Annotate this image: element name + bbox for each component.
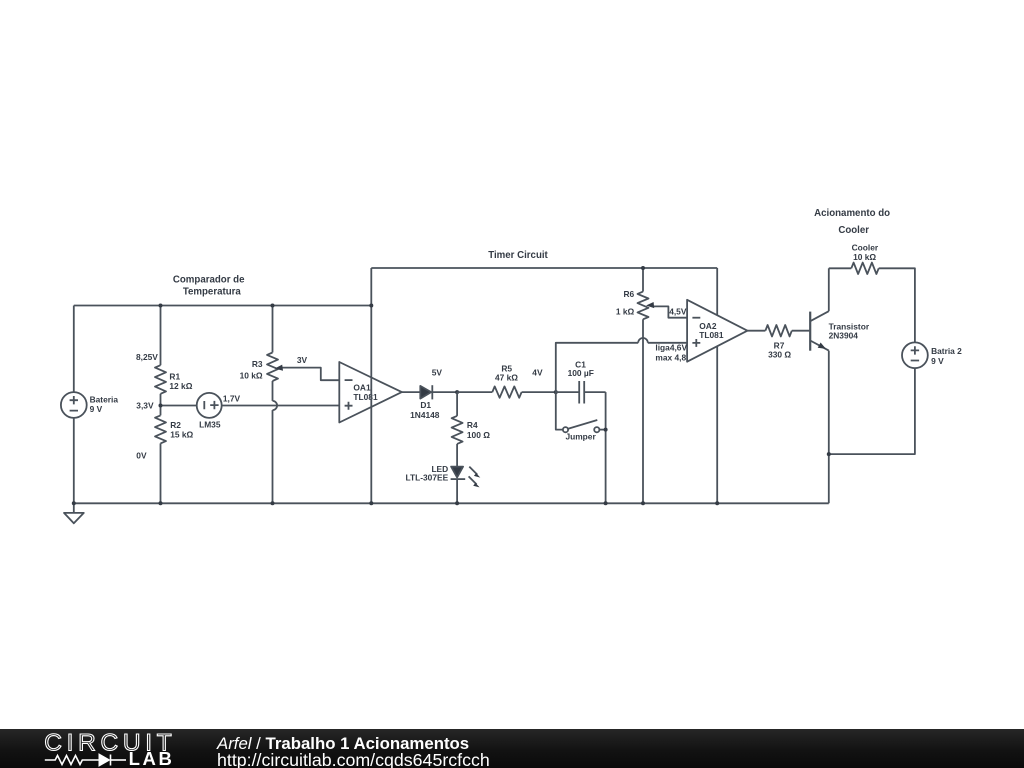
wire emitter down to bottom rail bbox=[828, 351, 830, 504]
wire collector up to cooler rail bbox=[828, 268, 830, 311]
svg-text:1,7V: 1,7V bbox=[223, 394, 241, 404]
node junction D1-R4-R5 bbox=[455, 390, 459, 394]
wire OA1 output to D1 bbox=[402, 391, 421, 393]
label Cooler 10 kΩ bbox=[852, 242, 879, 262]
svg-text:10 kΩ: 10 kΩ bbox=[240, 370, 263, 380]
wire timer box left edge bbox=[370, 268, 372, 503]
resistor R7 bbox=[765, 325, 809, 336]
label OA2 TL081 bbox=[699, 321, 724, 340]
svg-text:10 kΩ: 10 kΩ bbox=[853, 252, 876, 262]
label D1 1N4148 bbox=[410, 400, 440, 420]
svg-text:Comparador de: Comparador de bbox=[173, 275, 245, 286]
battery V2 Batria 2 bbox=[902, 342, 928, 368]
svg-text:D1: D1 bbox=[420, 400, 431, 410]
svg-text:liga4,6V: liga4,6V bbox=[655, 343, 687, 353]
svg-text:LM35: LM35 bbox=[199, 420, 221, 430]
svg-text:Bateria: Bateria bbox=[90, 395, 119, 405]
label C1 100 µF bbox=[568, 360, 594, 378]
source LM35 bbox=[197, 393, 222, 418]
footer text bbox=[217, 734, 469, 754]
R3 wiper arrow and wire to OA1 minus input bbox=[275, 365, 340, 381]
svg-text:100 Ω: 100 Ω bbox=[467, 430, 490, 440]
node junction jumper to C1 branch bbox=[604, 428, 608, 432]
wire hop R3 branch over signal wire bbox=[273, 401, 278, 410]
wire battery V2 bottom loop to emitter bbox=[829, 368, 915, 454]
potentiometer R6 bbox=[638, 268, 649, 503]
node junction emitter-battery loop bbox=[827, 452, 831, 456]
wire timer box top rail bbox=[371, 267, 717, 269]
svg-text:Cooler: Cooler bbox=[852, 242, 879, 252]
svg-text:47 kΩ: 47 kΩ bbox=[495, 373, 518, 383]
wire battery V1 bottom bbox=[73, 418, 75, 503]
wire bottom rail bbox=[74, 502, 829, 504]
svg-text:TL081: TL081 bbox=[353, 392, 378, 402]
svg-text:1 kΩ: 1 kΩ bbox=[616, 306, 635, 316]
svg-text:5V: 5V bbox=[432, 367, 443, 377]
capacitor C1 bbox=[556, 381, 606, 404]
ground bbox=[64, 503, 84, 523]
wire C1 right down to bottom rail bbox=[605, 392, 607, 503]
svg-text:9 V: 9 V bbox=[90, 404, 103, 414]
svg-text:9 V: 9 V bbox=[931, 356, 944, 366]
svg-text:Cooler: Cooler bbox=[838, 225, 869, 236]
potentiometer R3 bbox=[267, 306, 278, 504]
svg-text:330 Ω: 330 Ω bbox=[768, 349, 791, 359]
op-amp OA1 bbox=[339, 362, 402, 423]
label OA1 TL081 bbox=[353, 382, 378, 402]
label Transistor 2N3904 bbox=[829, 321, 870, 340]
wire LM35 to OA1 plus input bbox=[222, 405, 340, 407]
label LED LTL-307EE bbox=[406, 464, 449, 482]
svg-text:R2: R2 bbox=[170, 420, 181, 430]
svg-text:R1: R1 bbox=[169, 371, 180, 381]
label R5 47 kΩ bbox=[495, 363, 518, 382]
svg-text:3V: 3V bbox=[297, 355, 308, 365]
wire comparator top rail bbox=[74, 305, 372, 307]
battery V1 Bateria 9V bbox=[61, 392, 87, 418]
svg-text:15 kΩ: 15 kΩ bbox=[170, 430, 193, 440]
node label liga4,6V max 4,8 bbox=[655, 343, 687, 363]
svg-text:100 µF: 100 µF bbox=[568, 368, 594, 378]
wire R5 to junction bbox=[522, 391, 556, 393]
R6 wiper arrow and wire to OA2 minus input bbox=[646, 302, 687, 318]
svg-text:Acionamento do: Acionamento do bbox=[814, 208, 890, 219]
svg-text:4V: 4V bbox=[532, 368, 543, 378]
LED D2 LTL-307EE bbox=[451, 467, 481, 504]
wire timer box right edge bbox=[716, 268, 718, 503]
wire cooler rail left bbox=[829, 267, 852, 269]
svg-text:R3: R3 bbox=[252, 359, 263, 369]
svg-text:Temperatura: Temperatura bbox=[183, 286, 242, 297]
resistor R4 bbox=[452, 392, 463, 467]
wire junction up and right to OA2 plus input bbox=[556, 343, 687, 392]
node junction R5-C1-jumper bbox=[554, 390, 558, 394]
wire cooler rail right to battery V2 bbox=[879, 268, 915, 342]
resistor R1 bbox=[155, 306, 166, 406]
svg-text:TL081: TL081 bbox=[699, 330, 724, 340]
footer bar bbox=[0, 729, 1024, 768]
svg-text:1N4148: 1N4148 bbox=[410, 410, 440, 420]
title Comparador de Temperatura bbox=[173, 275, 245, 298]
transistor Q1 2N3904 bbox=[810, 311, 829, 351]
svg-text:OA1: OA1 bbox=[353, 382, 371, 392]
svg-text:2N3904: 2N3904 bbox=[829, 330, 859, 340]
svg-text:4,5V: 4,5V bbox=[669, 306, 687, 316]
svg-text:8,25V: 8,25V bbox=[136, 352, 158, 362]
resistor R2 bbox=[155, 406, 166, 504]
label R4 100 Ω bbox=[467, 420, 490, 440]
svg-text:0V: 0V bbox=[136, 450, 147, 460]
label R1 12 kΩ bbox=[169, 371, 192, 391]
node junction dots bottom rail bbox=[72, 501, 719, 505]
label R3 10 kΩ bbox=[240, 359, 263, 380]
wire node 3,3V to LM35 bbox=[161, 405, 197, 407]
svg-text:LAB: LAB bbox=[129, 748, 175, 768]
label Batria 2 9 V bbox=[931, 346, 962, 366]
wire battery V1 top to rail bbox=[73, 306, 75, 393]
label R7 330 Ω bbox=[768, 340, 791, 359]
svg-text:R6: R6 bbox=[623, 289, 634, 299]
resistor Cooler 10 kΩ bbox=[851, 263, 878, 274]
svg-text:Batria 2: Batria 2 bbox=[931, 346, 962, 356]
svg-text:max 4,8: max 4,8 bbox=[655, 352, 686, 362]
svg-text:12 kΩ: 12 kΩ bbox=[169, 381, 192, 391]
CircuitLab logo bbox=[0, 729, 200, 768]
svg-text:R4: R4 bbox=[467, 420, 478, 430]
label R6 1 kΩ bbox=[616, 289, 635, 316]
svg-text:Jumper: Jumper bbox=[565, 432, 596, 442]
svg-text:LTL-307EE: LTL-307EE bbox=[406, 473, 449, 483]
jumper switch bbox=[563, 420, 606, 432]
svg-text:3,3V: 3,3V bbox=[136, 401, 154, 411]
svg-text:Timer Circuit: Timer Circuit bbox=[488, 250, 548, 261]
label Bateria 9 V bbox=[90, 395, 119, 415]
op-amp OA2 bbox=[687, 300, 747, 362]
wire junction down to jumper bbox=[556, 392, 564, 430]
title Acionamento do Cooler bbox=[814, 208, 890, 236]
wire OA2 output to R7 bbox=[747, 330, 765, 332]
label R2 15 kΩ bbox=[170, 420, 193, 440]
wire junction to R5 bbox=[457, 391, 492, 393]
diode D1 bbox=[420, 385, 457, 399]
resistor R5 bbox=[492, 386, 521, 397]
wire hop over R6 branch bbox=[638, 338, 648, 343]
node junction dots top rail bbox=[159, 266, 646, 408]
